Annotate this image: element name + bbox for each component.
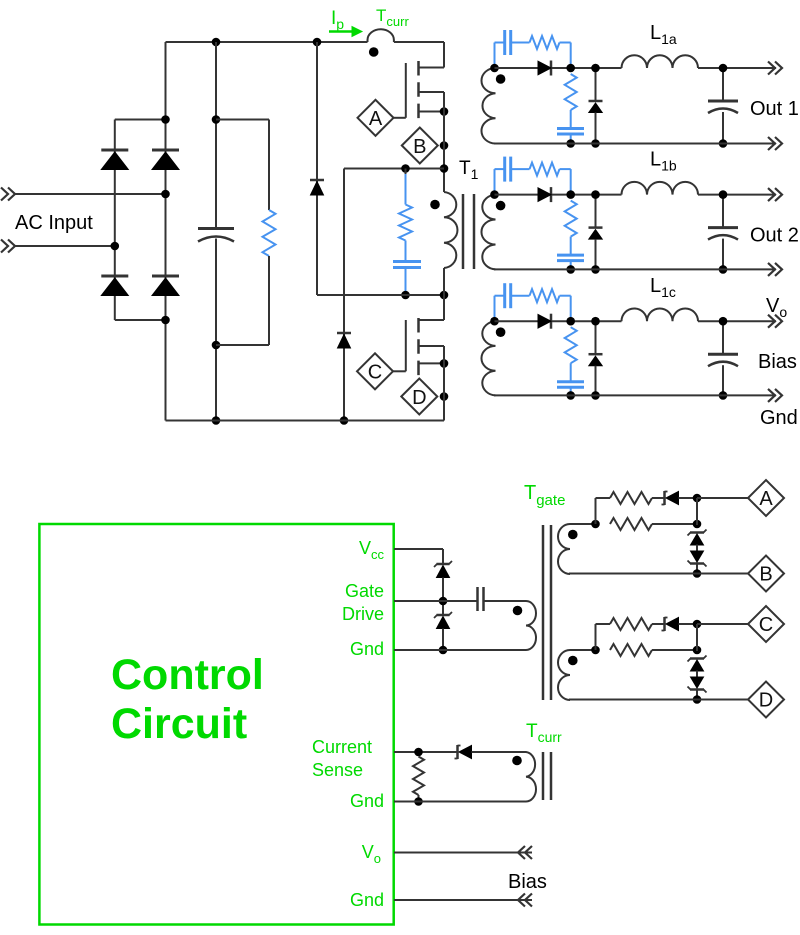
label Control Circuit (green)	[111, 651, 264, 748]
T1 primary polarity dot	[430, 200, 440, 210]
junction outcap c bottom	[719, 391, 728, 400]
wire between clamp diodes	[442, 578, 444, 616]
pin label Vcc (green)	[359, 538, 385, 562]
wire diode A to node	[679, 497, 698, 499]
wire snubber b left lead (blue)	[495, 169, 505, 195]
wire bottom rail	[166, 420, 445, 422]
resistor snubber c (blue)	[530, 289, 560, 302]
resistor damper a (blue)	[565, 74, 577, 110]
svg-text:Tcurr: Tcurr	[526, 721, 562, 745]
svg-text:Current: Current	[312, 737, 372, 757]
bulk capacitor C1 plates	[198, 229, 234, 242]
capacitor damper a (blue)	[557, 129, 584, 135]
diode speedup C	[662, 617, 679, 631]
svg-text:Gnd: Gnd	[350, 791, 384, 811]
terminal output a top (>>)	[768, 62, 782, 75]
wire bridge left branch	[114, 120, 116, 321]
junction freewheel c bottom	[591, 391, 600, 400]
wire between zeners CD	[696, 671, 698, 679]
diamond gate node D	[401, 379, 437, 415]
junction freewheel b bottom	[591, 265, 600, 274]
label T1	[459, 158, 479, 182]
Tgate secondary CD polarity dot	[568, 656, 578, 666]
diamond gate drive B	[748, 556, 784, 592]
svg-text:C: C	[368, 362, 382, 384]
svg-text:Sense: Sense	[312, 760, 363, 780]
diode freewheel c	[589, 354, 603, 366]
diode clamp right	[337, 333, 351, 348]
wire gate A stub	[393, 117, 406, 119]
svg-text:AC Input: AC Input	[15, 212, 93, 234]
wire snubber c right lead (blue)	[560, 296, 571, 322]
wire outcap b bottom	[722, 239, 724, 270]
wire snubber a right lead (blue)	[560, 43, 571, 69]
junction gnd node	[439, 646, 448, 655]
junction damper c bottom	[566, 391, 575, 400]
svg-text:C: C	[759, 614, 773, 636]
svg-text:A: A	[759, 488, 773, 510]
diamond gate node A	[358, 100, 394, 136]
zener protect AB lower	[688, 551, 707, 567]
wire output a bottom	[494, 143, 776, 145]
capacitor damper b (blue)	[557, 255, 584, 261]
capacitor output c	[708, 354, 738, 366]
zener protect CD upper	[688, 656, 707, 672]
svg-text:Gnd: Gnd	[760, 407, 798, 429]
junction AC line 2 / left branch	[111, 242, 120, 251]
label L1c	[650, 275, 676, 300]
terminal output c top (>>)	[768, 315, 782, 328]
junction top rail / clamp diode	[313, 38, 322, 47]
transformer T1 secondary b	[481, 195, 495, 270]
diode current sense	[455, 745, 472, 759]
wire winding CD top	[570, 649, 596, 651]
label Tcurr bottom (green)	[526, 721, 562, 745]
wire freewheel c bottom	[595, 366, 597, 396]
label Out 1	[750, 98, 799, 120]
pin label Gnd upper (green)	[350, 639, 384, 659]
wire between zeners AB	[696, 545, 698, 553]
diamond gate drive A	[748, 480, 784, 516]
terminal output b bottom (>>)	[768, 263, 782, 276]
AC input terminal bottom (>> arrow)	[1, 240, 15, 253]
svg-text:Bias: Bias	[758, 351, 797, 373]
wire freewheel c top	[595, 321, 597, 354]
junction bulk cap / bleeder bottom	[212, 341, 221, 350]
diode speedup A	[662, 491, 679, 505]
wire damper a bottom (blue)	[570, 134, 572, 144]
junction outcap b bottom	[719, 265, 728, 274]
wire bridge right branch	[165, 42, 167, 421]
wire corner up C	[596, 624, 611, 650]
wire AC line 1	[15, 193, 166, 195]
diamond gate node B	[402, 128, 438, 164]
pin label Gnd lower (green)	[350, 890, 384, 910]
junction node D	[440, 392, 449, 401]
svg-text:Ip: Ip	[331, 8, 344, 32]
capacitor snubber c (blue)	[505, 283, 511, 308]
transformer Tgate primary winding	[522, 601, 536, 650]
junction T1 top node	[440, 164, 449, 173]
junction snubber bottom	[401, 291, 410, 300]
wire node vertical C	[696, 624, 698, 651]
wire gate C stub	[393, 370, 406, 372]
svg-text:Gate: Gate	[345, 581, 384, 601]
junction rectifier c out	[566, 317, 575, 326]
wire freewheel b bottom	[595, 239, 597, 269]
wire damper b bottom (blue)	[570, 261, 572, 270]
capacitor output b	[708, 228, 738, 240]
wire top rail right	[394, 41, 444, 43]
T1 secondary b polarity dot	[496, 201, 506, 211]
transformer T1 secondary c	[481, 321, 495, 395]
diode clamp left	[310, 180, 324, 195]
transformer T1 core	[463, 194, 474, 269]
wire Gate Drive pin	[394, 600, 477, 602]
Tgate secondary AB polarity dot	[568, 530, 578, 540]
transformer Tcurr secondary winding	[522, 752, 536, 802]
diamond gate drive C	[748, 606, 784, 642]
wire Gnd pin to Tgate	[394, 649, 522, 651]
T1 secondary c polarity dot	[496, 327, 506, 337]
junction freewheel a bottom	[591, 139, 600, 148]
wire clamp lower to gnd	[442, 629, 444, 651]
MOSFET C drain stub	[419, 319, 445, 321]
diode rectifier b	[538, 187, 551, 202]
label Tgate (green)	[524, 482, 565, 509]
wire bridge top link	[115, 119, 166, 121]
arrow Ip current direction (green)	[329, 27, 362, 37]
wire snubber bottom lead	[405, 268, 407, 296]
transformer Tcurr core	[543, 752, 551, 800]
control circuit box (green)	[39, 524, 393, 925]
label L1a	[650, 22, 677, 47]
diode bridge lower-right	[152, 276, 179, 296]
wire freewheel a top	[595, 68, 597, 101]
resistor damper b (blue)	[565, 201, 577, 237]
wire damper c (blue)	[570, 363, 572, 382]
MOSFET C channel (dashed)	[417, 318, 420, 376]
svg-text:Bias: Bias	[508, 871, 547, 893]
junction rectifier b out	[566, 190, 575, 199]
diode bridge upper-right	[152, 150, 179, 170]
junction winding AB top	[591, 520, 600, 529]
wire source A down to T1	[443, 92, 445, 192]
label Gnd (stage 3)	[760, 407, 798, 429]
junction clamp right / bottom rail	[340, 416, 349, 425]
svg-text:Vcc: Vcc	[359, 538, 385, 562]
resistor snubber b (blue)	[530, 163, 560, 176]
svg-text:L1c: L1c	[650, 275, 676, 300]
svg-text:Control: Control	[111, 651, 264, 699]
label Tcurr (green)	[376, 6, 409, 29]
pin label Gnd middle (green)	[350, 791, 384, 811]
wire snubber mid lead	[405, 241, 407, 261]
resistor burden	[413, 757, 424, 796]
wire damper a (blue)	[570, 110, 572, 129]
wire Gnd bias pin	[394, 899, 532, 901]
junction secondary c top	[490, 317, 499, 326]
current transformer Tcurr primary bump	[368, 29, 394, 42]
pin label Current Sense (green)	[312, 737, 372, 780]
svg-text:Gnd: Gnd	[350, 890, 384, 910]
svg-text:Tgate: Tgate	[524, 482, 565, 509]
wire Gnd pin to Tcurr	[394, 801, 524, 803]
wire snubber c left lead (blue)	[495, 296, 505, 322]
terminal output c bottom (>>)	[768, 389, 782, 402]
resistor gate A upper	[610, 492, 652, 504]
resistor gate C lower	[610, 644, 652, 656]
wire output c top	[495, 320, 622, 322]
diode bridge lower-left	[101, 276, 128, 296]
MOSFET C body stub	[419, 345, 445, 347]
junction node B	[440, 141, 449, 150]
transformer T1 secondary a	[481, 68, 495, 144]
capacitor damper c (blue)	[557, 382, 584, 388]
transformer Tgate secondary AB	[558, 524, 570, 574]
MOSFET C source stub	[419, 362, 445, 364]
wire output a to terminal	[698, 67, 776, 69]
wire resistor to diode C	[652, 623, 665, 625]
wire drain A to top rail	[443, 42, 445, 68]
transformer T1 primary winding	[444, 192, 457, 268]
wire zener to B row	[696, 564, 698, 574]
wire diode C to node	[679, 623, 698, 625]
resistor bleeder (blue)	[263, 210, 276, 256]
label Vo (stage 3 top)	[766, 295, 787, 320]
label Ip (green)	[331, 8, 344, 32]
wire node C to diamond	[697, 623, 748, 625]
inductor L1c	[622, 308, 699, 321]
junction secondary a top	[490, 64, 499, 73]
T1 secondary a polarity dot	[496, 74, 506, 84]
zener protect CD lower	[688, 677, 707, 693]
wire snubber b mid (blue)	[511, 168, 530, 170]
junction lower node A	[693, 520, 702, 529]
wire snubber top lead	[405, 169, 407, 205]
junction gate drive node	[439, 597, 448, 606]
wire outcap c bottom	[722, 365, 724, 395]
wire T1 primary bottom	[443, 268, 445, 320]
wire output c to terminal	[698, 320, 776, 322]
wire bleeder top	[216, 120, 269, 211]
junction bulk cap / bleeder top	[212, 115, 221, 124]
label Bias bottom	[508, 871, 547, 893]
wire damper c bottom (blue)	[570, 387, 572, 395]
wire damper b (blue)	[570, 237, 572, 256]
Tcurr secondary polarity dot	[512, 756, 522, 766]
junction burden bottom	[414, 797, 423, 806]
wire AC line 2	[15, 245, 115, 247]
label Out 2	[750, 225, 799, 247]
MOSFET A drain stub	[419, 67, 445, 69]
wire outcap b top	[722, 195, 724, 227]
junction MOSFET C source	[440, 359, 449, 368]
svg-text:T1: T1	[459, 158, 479, 182]
resistor snubber a (blue)	[530, 36, 560, 49]
junction AC line 1 / right branch	[161, 190, 170, 199]
wire outcap c top	[722, 321, 724, 353]
svg-text:Out 1: Out 1	[750, 98, 799, 120]
terminal Gnd bias (<< arrow)	[518, 894, 532, 907]
junction rectifier a out	[566, 64, 575, 73]
wire clamp left horizontal	[317, 294, 406, 296]
wire output b bottom	[494, 268, 776, 270]
label L1b	[650, 149, 677, 174]
junction bridge bottom	[161, 316, 170, 325]
junction lower node C	[693, 646, 702, 655]
MOSFET A channel (dashed)	[417, 61, 420, 119]
wire Vo pin	[394, 852, 532, 854]
diode freewheel a	[589, 101, 603, 113]
svg-text:Vo: Vo	[362, 842, 381, 866]
wire snubber a left lead (blue)	[495, 43, 505, 69]
terminal Vo (<< arrow)	[518, 846, 532, 859]
svg-text:Vo: Vo	[766, 295, 787, 320]
transformer Tgate core	[543, 525, 551, 700]
label Bias (stage 3)	[758, 351, 797, 373]
svg-text:Drive: Drive	[342, 604, 384, 624]
wire output b to terminal	[698, 194, 776, 196]
transformer Tgate secondary CD	[558, 650, 570, 700]
diamond gate drive D	[748, 682, 784, 718]
wire snubber c mid (blue)	[511, 295, 530, 297]
svg-text:Tcurr: Tcurr	[376, 6, 409, 29]
capacitor snubber b (blue)	[505, 157, 511, 182]
resistor snubber primary (blue)	[399, 205, 412, 241]
wire output b top	[495, 194, 622, 196]
wire outcap a top	[722, 68, 724, 100]
junction outcap a bottom	[719, 139, 728, 148]
junction outcap c top	[719, 317, 728, 326]
junction burden top	[414, 748, 423, 757]
svg-text:A: A	[369, 108, 383, 130]
junction winding CD top	[591, 646, 600, 655]
wire T1 bottom horizontal	[317, 294, 444, 296]
svg-text:D: D	[759, 690, 773, 712]
junction snubber top	[401, 164, 410, 173]
wire zener to D row	[696, 690, 698, 700]
svg-text:D: D	[412, 387, 426, 409]
wire diode to Tcurr winding	[472, 751, 525, 753]
wire outcap a bottom	[722, 112, 724, 144]
inductor L1a	[622, 55, 699, 68]
wire lower resistor C to node	[652, 649, 697, 651]
junction outcap b top	[719, 190, 728, 199]
pin label Vo (green)	[362, 842, 381, 866]
wire burden bottom lead	[418, 795, 420, 802]
junction node A	[693, 494, 702, 503]
diode bridge upper-left	[101, 150, 128, 170]
wire snubber b right lead (blue)	[560, 169, 571, 195]
svg-text:L1a: L1a	[650, 22, 677, 47]
wire top rail left	[166, 41, 368, 43]
junction damper b bottom	[566, 265, 575, 274]
capacitor output a	[708, 101, 738, 113]
svg-text:B: B	[759, 564, 772, 586]
wire clamp right vertical	[343, 169, 345, 421]
wire T1 top horizontal	[344, 168, 444, 170]
junction top rail / bulk cap	[212, 38, 221, 47]
wire bridge bottom link	[115, 319, 166, 321]
label AC Input	[15, 212, 93, 234]
inductor L1b	[622, 182, 699, 195]
junction MOSFET A source	[440, 107, 449, 116]
wire freewheel b top	[595, 195, 597, 228]
terminal output a bottom (>>)	[768, 137, 782, 150]
wire clamp left vertical	[316, 42, 318, 295]
svg-text:Circuit: Circuit	[111, 700, 247, 748]
wire bulk cap top	[215, 42, 217, 227]
wire node A to diamond	[697, 497, 748, 499]
wire Vcc pin	[394, 549, 443, 564]
wire node vertical A	[696, 498, 698, 525]
diamond gate node C	[357, 353, 393, 389]
wire lower resistor A to node	[652, 523, 697, 525]
junction bridge top	[161, 115, 170, 124]
wire bulk cap bottom	[215, 239, 217, 421]
wire coupling cap to Tgate	[484, 600, 522, 602]
MOSFET A body stub	[419, 91, 445, 93]
junction freewheel c top	[591, 317, 600, 326]
wire winding AB bottom	[569, 573, 748, 575]
resistor gate C upper	[610, 618, 652, 630]
capacitor gate drive coupling	[478, 587, 484, 611]
wire source C down to bottom rail	[443, 346, 445, 421]
wire snubber a mid (blue)	[511, 42, 530, 44]
junction damper a bottom	[566, 139, 575, 148]
wire corner up A	[596, 498, 611, 524]
Tgate primary polarity dot	[513, 606, 523, 616]
wire freewheel a bottom	[595, 113, 597, 144]
MOSFET A gate line	[405, 63, 407, 118]
zener protect AB upper	[688, 530, 707, 546]
terminal output b top (>>)	[768, 188, 782, 201]
wire output c bottom	[494, 394, 776, 396]
wire winding AB top	[570, 523, 596, 525]
capacitor snubber a (blue)	[505, 30, 511, 55]
junction node B	[693, 569, 702, 578]
diode rectifier c	[538, 314, 551, 329]
diode rectifier a	[538, 61, 551, 76]
MOSFET C gate line	[405, 320, 407, 371]
resistor gate A lower	[610, 518, 652, 530]
MOSFET A source stub	[419, 111, 445, 113]
junction outcap a top	[719, 64, 728, 73]
svg-text:L1b: L1b	[650, 149, 677, 174]
zener clamp lower (Gnd)	[434, 612, 452, 629]
junction T1 bottom node	[440, 291, 449, 300]
wire output a top	[495, 67, 622, 69]
wire winding CD bottom	[569, 699, 748, 701]
junction freewheel b top	[591, 190, 600, 199]
diode freewheel b	[589, 228, 603, 240]
Tcurr polarity dot	[369, 47, 379, 57]
svg-text:Out 2: Out 2	[750, 225, 799, 247]
wire bleeder bottom	[216, 256, 269, 345]
junction node D	[693, 695, 702, 704]
junction secondary b top	[490, 190, 499, 199]
resistor damper c (blue)	[565, 327, 577, 363]
zener clamp upper (Vcc)	[434, 561, 452, 578]
junction bottom rail / bulk cap	[212, 416, 221, 425]
pin label Gate Drive (green)	[342, 581, 384, 624]
wire Current Sense pin	[394, 751, 457, 753]
capacitor snubber primary (blue)	[393, 262, 421, 268]
AC input terminal top (>> arrow)	[1, 188, 15, 201]
svg-text:B: B	[413, 136, 426, 158]
wire resistor to diode A	[652, 497, 665, 499]
